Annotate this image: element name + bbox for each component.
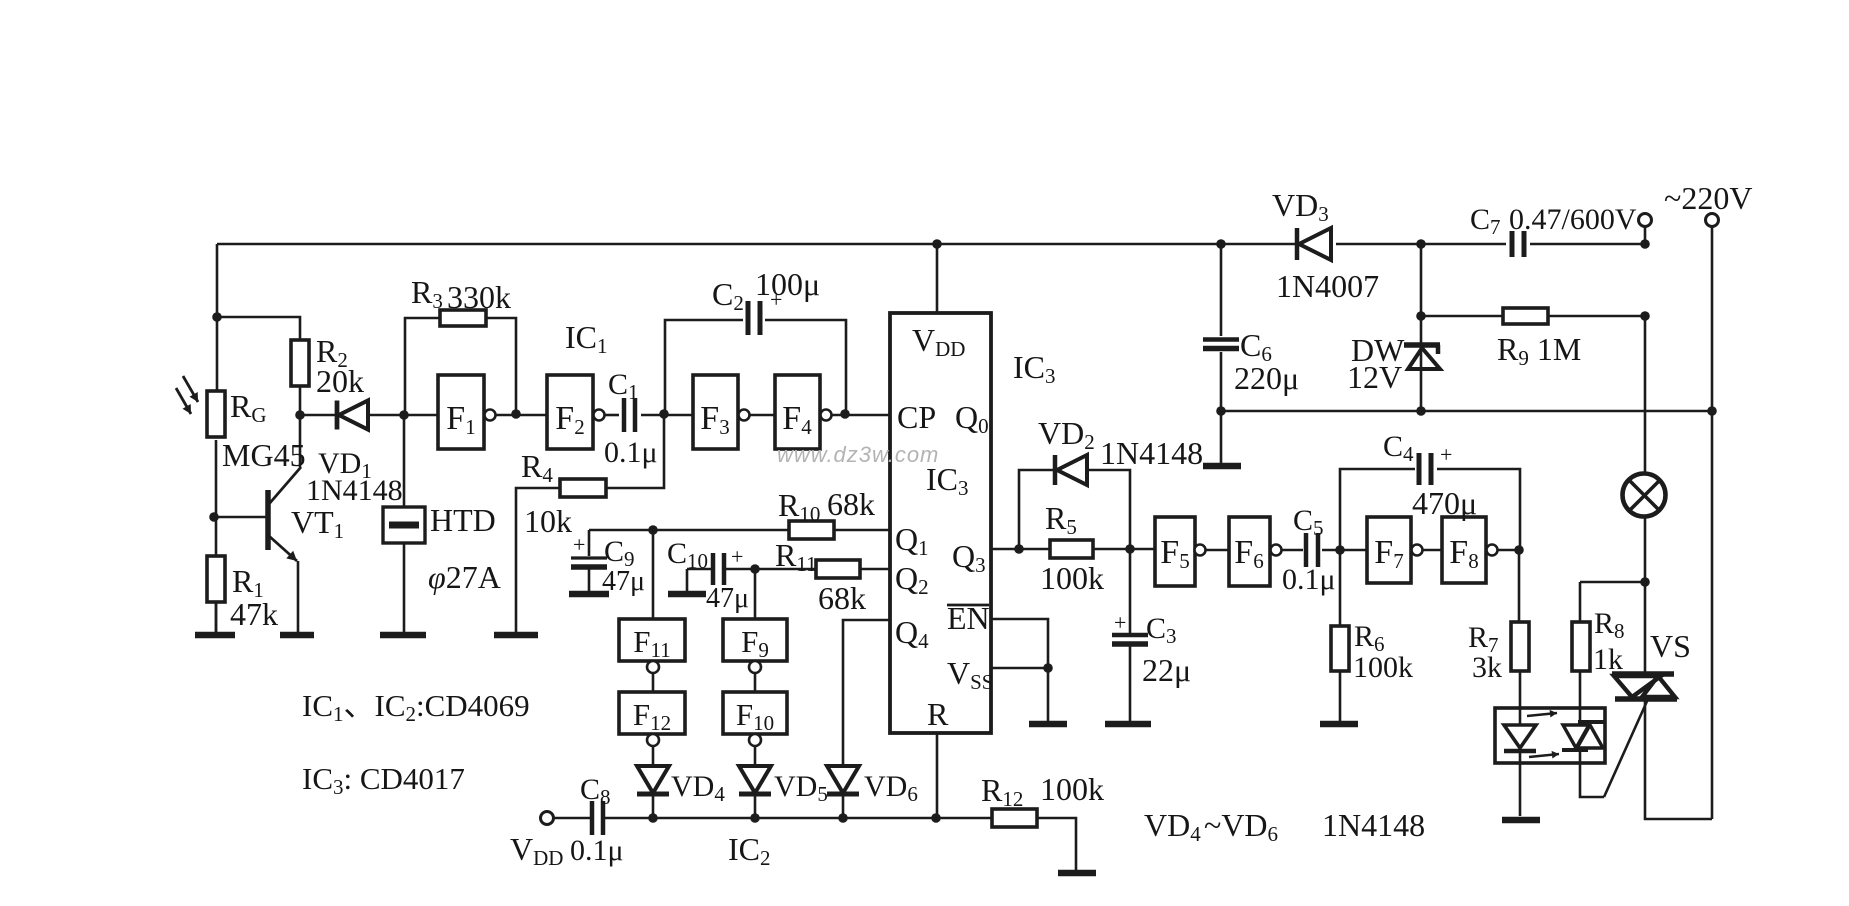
svg-text:1N4007: 1N4007 xyxy=(1276,268,1379,304)
svg-text:330k: 330k xyxy=(447,279,511,315)
svg-text:47μ: 47μ xyxy=(602,566,645,597)
svg-text:1N4148: 1N4148 xyxy=(1322,807,1425,843)
svg-text:100k: 100k xyxy=(1040,560,1104,596)
svg-text:47k: 47k xyxy=(230,596,278,632)
svg-text:68k: 68k xyxy=(827,486,875,522)
svg-text:CP: CP xyxy=(897,399,936,435)
svg-text:~220V: ~220V xyxy=(1664,180,1752,216)
svg-text:22μ: 22μ xyxy=(1142,652,1191,688)
svg-text:MG45: MG45 xyxy=(222,437,306,473)
svg-text:1k: 1k xyxy=(1593,643,1623,676)
svg-text:~VD6: ~VD6 xyxy=(1204,807,1278,846)
svg-text:+: + xyxy=(770,287,782,312)
svg-text:1N4148: 1N4148 xyxy=(306,474,403,507)
svg-text:100μ: 100μ xyxy=(755,266,820,302)
svg-text:12V: 12V xyxy=(1347,359,1402,395)
svg-text:220μ: 220μ xyxy=(1234,360,1299,396)
svg-text:φ27A: φ27A xyxy=(428,559,501,595)
svg-text:0.47/600V: 0.47/600V xyxy=(1509,203,1637,236)
svg-text:0.1μ: 0.1μ xyxy=(604,436,658,469)
svg-text:+: + xyxy=(573,532,585,557)
svg-text:+: + xyxy=(731,544,743,569)
svg-text:100k: 100k xyxy=(1353,651,1413,684)
svg-text:47μ: 47μ xyxy=(706,583,749,614)
svg-text:R: R xyxy=(927,696,949,732)
svg-text:3k: 3k xyxy=(1472,651,1502,684)
svg-text:68k: 68k xyxy=(818,580,866,616)
svg-text:10k: 10k xyxy=(524,503,572,539)
svg-text:HTD: HTD xyxy=(430,502,496,538)
svg-text:www.dz3w.com: www.dz3w.com xyxy=(777,442,939,467)
svg-text:+: + xyxy=(1440,442,1452,467)
svg-text:20k: 20k xyxy=(316,363,364,399)
svg-text:+: + xyxy=(1114,610,1126,635)
svg-text:1N4148: 1N4148 xyxy=(1100,435,1203,471)
svg-text:VS: VS xyxy=(1650,628,1691,664)
svg-text:0.1μ: 0.1μ xyxy=(570,834,624,867)
svg-text:100k: 100k xyxy=(1040,771,1104,807)
svg-text:EN: EN xyxy=(947,600,990,636)
svg-text:470μ: 470μ xyxy=(1412,485,1477,521)
svg-text:IC3: CD4017: IC3: CD4017 xyxy=(302,761,465,799)
svg-text:0.1μ: 0.1μ xyxy=(1282,563,1336,596)
svg-text:R9 1M: R9 1M xyxy=(1497,331,1581,370)
